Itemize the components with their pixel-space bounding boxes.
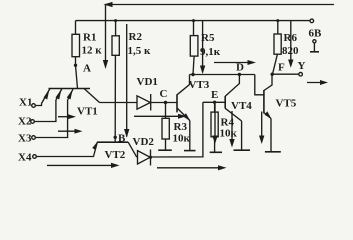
terminal 6V: [310, 19, 314, 23]
transistor VT1: [49, 88, 91, 90]
current arrow down at left: [103, 60, 108, 69]
current arrow VT5 emitter: [261, 112, 263, 141]
resistor R6: [276, 19, 279, 22]
svg-text:R2: R2: [129, 31, 143, 43]
node A: [74, 64, 77, 67]
resistor R3: [165, 103, 167, 119]
emitter 2: [56, 89, 62, 101]
resistor R2: [114, 19, 117, 22]
svg-text:A: A: [83, 63, 91, 75]
svg-text:VT4: VT4: [231, 100, 252, 112]
emitter 1: [42, 89, 51, 104]
node C: [164, 101, 167, 104]
common terminal symbol: [313, 40, 316, 43]
current arrow VT4 emitter: [231, 111, 233, 144]
transistor VT5: [263, 90, 265, 114]
svg-text:F: F: [278, 62, 285, 74]
resistor R4: [214, 102, 216, 112]
flow arrow under VT1 (X3 row): [58, 130, 80, 132]
svg-text:X2: X2: [18, 116, 32, 128]
wire D to VT5 base: [255, 75, 264, 95]
wire VT1 collector to VD1: [100, 102, 138, 104]
current arrow R5 branch: [202, 21, 204, 73]
transistor VT2: [97, 141, 128, 143]
current arrow into VT2 base: [126, 24, 128, 137]
wire node D rail: [190, 74, 255, 76]
flow arrow right of Y: [307, 82, 325, 84]
resistor R5: [192, 19, 195, 22]
transistor VT3: [176, 94, 178, 112]
transistor VT4: [224, 96, 226, 109]
svg-text:Y: Y: [298, 60, 306, 72]
flow arrow bottom mid: [157, 167, 223, 169]
emitter 3: [68, 89, 74, 101]
svg-text:D: D: [236, 62, 244, 74]
ground VT5: [265, 151, 281, 153]
svg-text:X4: X4: [18, 152, 32, 164]
svg-text:VD1: VD1: [137, 76, 158, 88]
svg-text:E: E: [211, 89, 218, 101]
flow arrow bottom left: [47, 164, 116, 166]
wire top feedback line: [106, 5, 335, 67]
svg-text:R3: R3: [174, 121, 188, 133]
svg-text:12 к: 12 к: [82, 45, 103, 57]
svg-text:10к: 10к: [173, 133, 191, 145]
svg-text:C: C: [160, 88, 168, 100]
ground VT3: [184, 150, 196, 152]
svg-text:X1: X1: [19, 97, 32, 109]
svg-text:VD2: VD2: [133, 136, 155, 148]
svg-text:VT2: VT2: [105, 149, 126, 161]
svg-text:1,5 к: 1,5 к: [128, 45, 152, 57]
node F / output Y: [271, 73, 274, 76]
svg-text:X3: X3: [18, 133, 32, 145]
svg-text:6В: 6В: [309, 28, 323, 40]
flow arrow under VT1 (X2 row): [58, 116, 74, 118]
current arrow R6 branch: [290, 21, 292, 66]
ground R3: [158, 149, 172, 151]
svg-text:VT3: VT3: [189, 79, 210, 91]
svg-text:VT5: VT5: [276, 98, 297, 110]
ground R4: [210, 151, 222, 153]
flow arrow mid: [134, 115, 183, 117]
svg-text:VT1: VT1: [77, 106, 98, 118]
svg-text:10к: 10к: [220, 128, 238, 140]
wire VD2 cathode to E branch: [151, 102, 203, 157]
node D arrow: [214, 62, 249, 64]
resistor R1: [75, 21, 77, 35]
wire base of VT1: [76, 65, 78, 88]
svg-text:R1: R1: [83, 32, 96, 44]
ground VT4: [234, 149, 251, 151]
wire +6V rail: [76, 20, 310, 22]
